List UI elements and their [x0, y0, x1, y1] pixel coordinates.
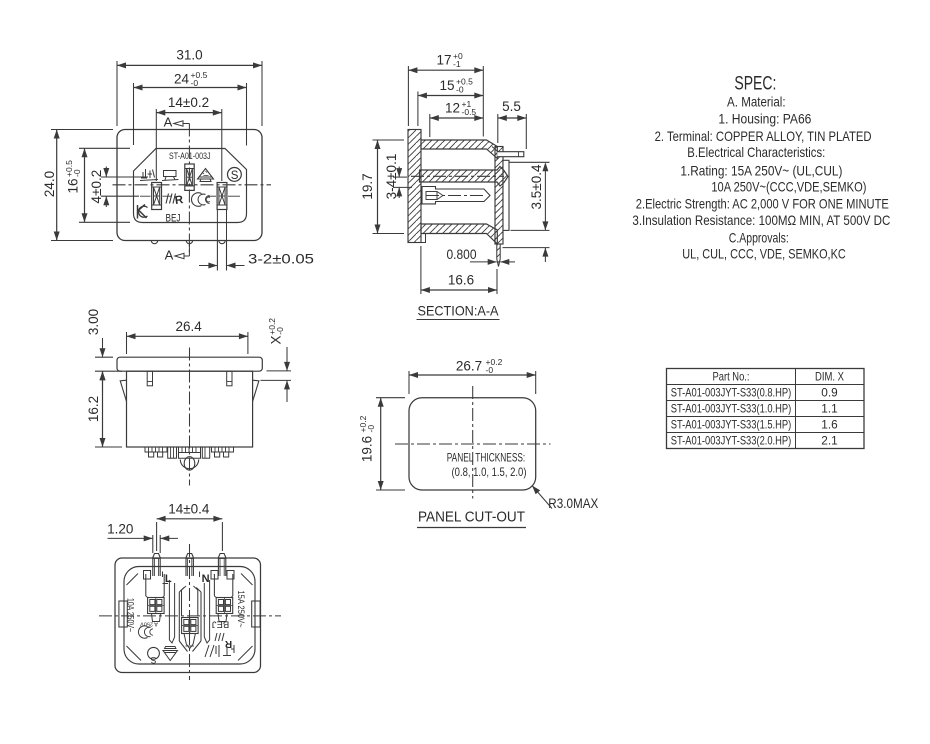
- front view: pin center lines: [140, 195, 240, 197]
- panel cut-out: vertical center line: [472, 386, 474, 499]
- dimension 5.5 (latch finger): [498, 99, 527, 149]
- side view: center line: [189, 348, 191, 486]
- svg-text:26.7: 26.7: [456, 359, 482, 374]
- svg-text:DIM. X: DIM. X: [815, 370, 844, 384]
- section A-A: earth terminal bar (hatched): [420, 167, 509, 187]
- svg-text:X: X: [269, 335, 284, 344]
- svg-text:14±0.4: 14±0.4: [168, 502, 210, 517]
- rear view: N pin tail: [218, 554, 225, 577]
- svg-text:10A 250V~(CCC,VDE,SEMKO): 10A 250V~(CCC,VDE,SEMKO): [711, 180, 866, 195]
- svg-text:16: 16: [66, 178, 81, 193]
- svg-text:B.Electrical Characteristics:: B.Electrical Characteristics:: [687, 145, 825, 160]
- rear view: N terminal body with crimp: [214, 574, 232, 622]
- rear view: L terminal label: [163, 572, 172, 586]
- svg-text:31.0: 31.0: [176, 48, 202, 63]
- svg-text:4±0.2: 4±0.2: [89, 170, 104, 204]
- radius callout R3.0MAX: [530, 484, 599, 511]
- front view: marking text ST-A01-003J: [169, 151, 211, 162]
- side view: flange plate: [117, 357, 262, 371]
- svg-text:-0.5: -0.5: [462, 107, 477, 117]
- svg-text:C.Approvals:: C.Approvals:: [729, 230, 789, 245]
- svg-text:R: R: [224, 638, 232, 649]
- SPEC heading: [734, 73, 776, 95]
- panel cut-out: thickness note: [447, 451, 527, 479]
- dimension 3.00 (flange thickness): [86, 309, 122, 392]
- rear view: horizontal center line: [99, 615, 281, 617]
- section A-A: flange strip (hatched): [408, 130, 426, 243]
- section A-A: L/N contact center line: [426, 195, 484, 197]
- rear view: UR mark (inverted): [215, 633, 232, 649]
- dimension 3.5±0.4: [503, 162, 550, 262]
- svg-text:SPEC:: SPEC:: [734, 73, 776, 95]
- rear view: left side notch: [119, 601, 127, 627]
- svg-text:3.5±0.4: 3.5±0.4: [529, 164, 544, 209]
- svg-text:A 250V: A 250V: [140, 621, 158, 627]
- dimension 24.0 (flange height): [42, 130, 113, 241]
- front view: VDE triangle approval mark: [198, 169, 214, 182]
- svg-text:A. Material:: A. Material:: [727, 95, 786, 110]
- svg-text:2. Terminal: COPPER ALLOY, TI: 2. Terminal: COPPER ALLOY, TIN PLATED: [655, 129, 872, 144]
- front view: line pin L (left): [152, 183, 162, 210]
- dimension 3-4±0.1: [384, 154, 412, 200]
- front view: cULus recognized mark 2: [162, 171, 179, 181]
- svg-text:S: S: [150, 655, 156, 665]
- svg-text:-0: -0: [275, 327, 285, 335]
- svg-text:ST-A01-003JYT-S33(2.0.HP): ST-A01-003JYT-S33(2.0.HP): [671, 434, 792, 448]
- front view: vertical center line / section cut line A-A: [188, 124, 190, 255]
- svg-text:3.00: 3.00: [86, 309, 101, 335]
- svg-text:19.6: 19.6: [360, 436, 375, 462]
- rear view: E terminal body with crimp: [182, 586, 199, 649]
- dimension 16.6: [421, 246, 497, 294]
- svg-text:1.Rating: 15A 250V~ (UL,CUL): 1.Rating: 15A 250V~ (UL,CUL): [680, 163, 842, 178]
- front view: horizontal center line: [113, 184, 272, 186]
- svg-text:ST-A01-003JYT-S33(1.5.HP): ST-A01-003JYT-S33(1.5.HP): [671, 418, 792, 432]
- dimension 1.20 (tail width): [107, 522, 178, 554]
- svg-text:1.1: 1.1: [821, 402, 837, 416]
- section arrow A (top): [164, 115, 190, 130]
- label PANEL CUT-OUT: [417, 510, 526, 528]
- svg-text:-0: -0: [486, 365, 494, 375]
- svg-text:0.800: 0.800: [447, 247, 477, 262]
- section A-A: housing top wall (hatched): [421, 140, 497, 159]
- front view: CCC approval mark: [191, 193, 210, 207]
- svg-text:1.6: 1.6: [821, 418, 838, 432]
- dimension 15 +0.5/-0: [418, 77, 483, 127]
- dimension 16 +0.5/-0 (recess height): [64, 148, 130, 222]
- rear view: right side notch: [252, 601, 260, 627]
- rear view: SEMKO S mark (inverted): [148, 647, 160, 664]
- front view: marking text BEJ: [166, 213, 181, 225]
- rear view: inner body outline: [124, 567, 255, 665]
- side view: bottom terminal teeth left: [145, 447, 167, 457]
- svg-text:14±0.2: 14±0.2: [168, 95, 209, 110]
- svg-text:UL, CUL, CCC, VDE, SEMKO,KC: UL, CUL, CCC, VDE, SEMKO,KC: [682, 247, 845, 262]
- svg-text:5.5: 5.5: [502, 99, 521, 114]
- rear view: chamber divider left: [169, 580, 174, 643]
- front view: neutral pin solder tails: [217, 210, 226, 271]
- dimension 31.0 (flange width): [117, 48, 262, 127]
- svg-text:2.Electric Strength: AC 2,000: 2.Electric Strength: AC 2,000 V FOR ONE …: [636, 197, 889, 212]
- section arrow A (bottom): [165, 242, 190, 263]
- rear view: chamber divider right: [204, 580, 209, 643]
- dimension 14±0.2 (pin pitch): [156, 95, 222, 181]
- svg-text:1.20: 1.20: [107, 522, 133, 537]
- section A-A: snap-in latch finger: [492, 147, 524, 157]
- rear view: terminal chamber tabs: [144, 571, 235, 580]
- svg-text:0.9: 0.9: [821, 386, 837, 400]
- label SECTION:A-A: [417, 303, 500, 320]
- rear view: VDE triangle mark (inverted): [163, 647, 178, 661]
- svg-text:-0: -0: [72, 169, 82, 177]
- rear view: outer flange outline: [115, 558, 261, 673]
- rear view: E pin tail: [186, 554, 193, 577]
- svg-text:-0: -0: [456, 85, 464, 95]
- front view: bottom bosses: [151, 241, 225, 244]
- section A-A: front wall (hatched): [495, 147, 503, 245]
- rear view: cULus marks (inverted): [205, 645, 234, 657]
- dimension 16.2 (body depth): [86, 371, 122, 447]
- rear view: E terminal chamber pocket: [179, 588, 201, 652]
- svg-text:-0: -0: [366, 425, 376, 433]
- section A-A: latch arm side profile: [503, 160, 509, 230]
- svg-text:24.0: 24.0: [42, 171, 57, 197]
- svg-text:1. Housing: PA66: 1. Housing: PA66: [718, 112, 811, 127]
- dimension 17 +0/-1: [408, 51, 483, 137]
- svg-text:PANEL CUT-OUT: PANEL CUT-OUT: [418, 510, 525, 526]
- front view: SEMKO S approval mark: [228, 168, 242, 183]
- svg-text:L: L: [165, 573, 172, 585]
- svg-text:S: S: [231, 170, 239, 182]
- front view: neutral pin N (right): [217, 183, 227, 210]
- svg-text:16.2: 16.2: [86, 396, 101, 422]
- rear view: CCC coil mark (inverted): [138, 621, 157, 639]
- dimension 19.6 +0.2/-0 (cut-out height): [358, 398, 405, 490]
- svg-text:R3.0MAX: R3.0MAX: [548, 496, 598, 511]
- section A-A: solder tail: [497, 244, 500, 267]
- dimension 0.800 (tail thickness): [447, 247, 516, 268]
- dimension 4±0.2 (pin row offset): [89, 167, 148, 208]
- side view: bottom bars right: [202, 447, 209, 458]
- svg-text:BEJ: BEJ: [212, 619, 230, 630]
- section A-A: earth terminal center line: [411, 175, 504, 177]
- rear view: L pin tail: [153, 554, 160, 577]
- rear view: L terminal body with crimp: [146, 574, 164, 622]
- rear view: N terminal label: [200, 572, 210, 586]
- side view: left latch: [120, 380, 126, 401]
- svg-text:15: 15: [439, 78, 454, 93]
- rear view: vertical center line: [189, 544, 191, 680]
- side view: wire loop grommet: [180, 457, 198, 471]
- dimension X +0.2/-0 (panel gap): [261, 318, 292, 402]
- dimension 26.7 +0.2/-0 (cut-out width): [409, 357, 536, 394]
- side view: body: [127, 371, 253, 447]
- SPEC text block: [632, 95, 890, 262]
- svg-text:A: A: [164, 115, 173, 130]
- front view: earth pin E (center): [185, 164, 194, 190]
- panel cut-out: opening outline: [409, 398, 536, 490]
- front view: recessed socket body with chamfered corners: [134, 149, 247, 223]
- dimension 24 +0.5/-0 (recess width): [134, 70, 247, 146]
- svg-text:3-2±0.05: 3-2±0.05: [248, 251, 314, 266]
- part number table: [667, 369, 865, 449]
- section A-A: L/N contact detail: [422, 187, 490, 204]
- svg-text:12: 12: [445, 101, 460, 116]
- svg-text:Part No.:: Part No.:: [713, 370, 750, 384]
- svg-text:2.1: 2.1: [821, 434, 837, 448]
- svg-text:ST-A01-003JYT-S33(0.8.HP): ST-A01-003JYT-S33(0.8.HP): [671, 386, 792, 400]
- svg-text:3-4±0.1: 3-4±0.1: [384, 154, 399, 200]
- svg-text:17: 17: [436, 53, 451, 68]
- svg-text:-0: -0: [191, 78, 199, 88]
- rear view: marking BEJ (inverted): [212, 619, 230, 630]
- svg-text:BEJ: BEJ: [166, 213, 181, 225]
- rear view: rating text 10A 250V~: [126, 598, 136, 632]
- dimension 12 +1/-0.5: [430, 99, 484, 137]
- side view: alignment pegs: [147, 371, 232, 386]
- svg-text:A: A: [165, 248, 174, 263]
- side view: right latch: [253, 380, 259, 401]
- dimension 14±0.4 (tail pitch): [157, 502, 223, 552]
- front view: UR mark with R: [166, 194, 185, 208]
- svg-text:24: 24: [174, 72, 190, 87]
- section A-A: housing bottom wall (hatched): [421, 224, 497, 244]
- front view: mounting flange outline: [117, 130, 262, 241]
- svg-text:SECTION:A-A: SECTION:A-A: [418, 303, 500, 319]
- svg-text:-1: -1: [453, 59, 461, 69]
- dimension 26.4 (body width): [127, 319, 248, 354]
- side view: bottom bars left: [168, 447, 177, 458]
- svg-text:3.Insulation Resistance: 100MΩ: 3.Insulation Resistance: 100MΩ MIN, AT 5…: [632, 213, 890, 228]
- svg-text:16.6: 16.6: [448, 273, 474, 288]
- svg-text:19.7: 19.7: [360, 173, 375, 199]
- svg-text:N: N: [202, 573, 210, 585]
- front view: cULus recognized mark 1: [140, 169, 158, 181]
- svg-text:PANEL THICKNESS:: PANEL THICKNESS:: [447, 451, 526, 465]
- front view: KC approval mark: [138, 205, 148, 219]
- svg-text:26.4: 26.4: [175, 319, 202, 334]
- svg-text:ST-A01-003JYT-S33(1.0.HP): ST-A01-003JYT-S33(1.0.HP): [671, 402, 792, 416]
- dimension 19.7 (body height): [360, 140, 404, 234]
- side view: bottom terminal teeth right: [212, 447, 234, 457]
- svg-text:(0.8, 1.0, 1.5, 2.0): (0.8, 1.0, 1.5, 2.0): [452, 465, 527, 479]
- svg-text:10A 250V~: 10A 250V~: [126, 598, 136, 632]
- svg-text:15A 250V~: 15A 250V~: [236, 591, 246, 628]
- dimension 3-2±0.05 (solder tail): [199, 251, 314, 268]
- side view: bottom center block with teeth: [179, 447, 201, 458]
- rear view: rating text 15A 250V~: [236, 591, 246, 628]
- panel cut-out: horizontal center line: [395, 443, 551, 445]
